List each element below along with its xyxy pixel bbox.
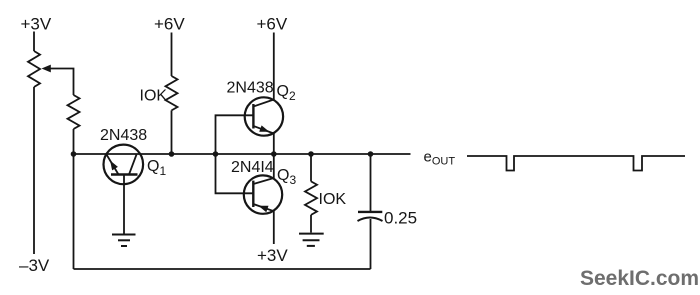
junction dot node C (271, 151, 277, 157)
wire: main output rail (74, 153, 411, 155)
resistor R2 (68, 95, 80, 129)
wire: Q2 emitter to rail (273, 134, 275, 155)
junction dot (rail / capacitor) (368, 151, 374, 157)
ground (under 10K right) (299, 234, 324, 246)
wire: bottom rail (74, 268, 371, 270)
resistor 10K (right) (305, 181, 317, 215)
svg-text:+6V: +6V (257, 15, 288, 34)
svg-text:0.25: 0.25 (384, 209, 417, 228)
wire: Q3 emitter to +3V (273, 211, 275, 244)
svg-text:+6V: +6V (154, 15, 185, 34)
wire: +3V lead to potentiometer (33, 32, 35, 52)
junction dot node B (213, 151, 219, 157)
transistor Q2 2N438 (245, 97, 283, 135)
resistor 10K (left) (166, 76, 178, 110)
wire: potentiometer bottom to -3V (33, 87, 35, 254)
wire: 10K to rail (171, 110, 173, 154)
svg-text:2N4I4: 2N4I4 (231, 159, 274, 176)
wire: node A down to bottom rail (73, 154, 75, 269)
svg-text:SeekIC.com: SeekIC.com (580, 267, 699, 290)
output waveform (467, 156, 685, 171)
svg-text:2N438: 2N438 (227, 80, 274, 97)
svg-text:+3V: +3V (21, 15, 52, 34)
wire: node B down to Q3 base (216, 154, 254, 193)
transistor Q3 2N414 (244, 175, 282, 213)
svg-text:Q1: Q1 (147, 158, 166, 178)
junction dot (10K / rail) (169, 151, 175, 157)
wire: rail corner up to Q2 base (216, 115, 254, 154)
wire: rail to 10K (right) (310, 154, 312, 181)
junction dot (rail / 10K right) (308, 151, 314, 157)
svg-text:IOK: IOK (319, 191, 347, 208)
potentiometer R1 (28, 51, 40, 87)
capacitor C1 (358, 154, 383, 269)
wire: wiper to R2 (49, 69, 74, 96)
svg-text:Q2: Q2 (277, 83, 296, 103)
ground (under Q1) (112, 235, 136, 247)
svg-text:eOUT: eOUT (424, 149, 456, 168)
svg-text:–3V: –3V (19, 256, 50, 275)
potentiometer wiper arrow (42, 65, 51, 73)
svg-text:2N438: 2N438 (100, 127, 147, 144)
wire: Q1 base to ground (123, 175, 125, 234)
svg-text:IOK: IOK (140, 88, 168, 105)
wire: rail to Q3 collector (273, 154, 275, 178)
wire: +6V to resistor 10K (171, 33, 173, 77)
wire: +6V to Q2 collector (273, 33, 275, 100)
transistor Q1 2N438 (104, 145, 144, 185)
wire: 10K to ground (310, 215, 312, 233)
wire: R2 bottom to node A (73, 129, 75, 154)
node A junction dot (71, 151, 77, 157)
svg-text:+3V: +3V (257, 246, 288, 265)
